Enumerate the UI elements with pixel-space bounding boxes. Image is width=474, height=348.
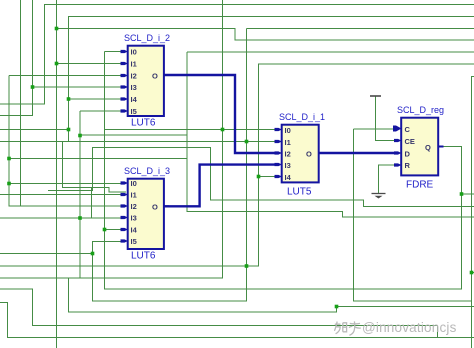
svg-text:SCL_D_reg: SCL_D_reg <box>397 105 444 115</box>
blue net LUT6_3 output to LUT5 I3 <box>164 165 277 207</box>
blue net LUT5 output to FDRE D <box>319 152 397 154</box>
svg-text:I1: I1 <box>131 60 137 69</box>
junction x471 y272 <box>470 271 474 275</box>
svg-text:LUT5: LUT5 <box>287 187 312 198</box>
wire clock vertical <box>354 77 474 302</box>
wire vertical x56 <box>56 0 58 348</box>
wire 253 branch <box>0 253 93 255</box>
wire vertical x9 chain <box>9 76 126 207</box>
svg-text:I4: I4 <box>131 95 138 104</box>
blue net LUT6_2 output to LUT5 I2 <box>164 75 277 153</box>
svg-text:LUT6: LUT6 <box>131 118 156 129</box>
svg-text:I3: I3 <box>285 161 291 170</box>
junction x258 y176 <box>257 175 261 179</box>
svg-text:I0: I0 <box>131 179 137 188</box>
svg-text:R: R <box>405 161 411 170</box>
svg-text:FDRE: FDRE <box>406 180 434 191</box>
svg-text:O: O <box>306 150 312 159</box>
junction x246 y141 <box>245 140 249 144</box>
svg-text:I4: I4 <box>131 226 138 235</box>
svg-text:SCL_D_i_3: SCL_D_i_3 <box>124 166 170 176</box>
svg-text:I2: I2 <box>131 72 137 81</box>
svg-text:I4: I4 <box>285 173 292 182</box>
ground symbol <box>372 194 386 199</box>
wire 158 line <box>9 157 187 159</box>
svg-text:I5: I5 <box>131 107 137 116</box>
wire I0 LUT6_3 feed <box>9 183 126 185</box>
wire branch 312 <box>69 278 474 312</box>
FDRE SCL_D_reg box <box>397 105 444 191</box>
junction x461 y194 <box>460 192 464 196</box>
LUT5 pins <box>275 128 282 178</box>
wire Q branch stub 194 <box>462 193 474 195</box>
wire vertical x80 <box>79 111 81 278</box>
LUT6 SCL_D_i_3 pins <box>121 181 128 242</box>
wire I0 LUT5 left seg <box>0 129 69 131</box>
junction x104 y229 <box>103 228 107 232</box>
wire vertical x20 <box>20 0 22 206</box>
wire I5 LUT6_2 feed <box>80 110 126 112</box>
wire vertical x32 <box>0 0 33 116</box>
power supply bar (CE tie-high) <box>370 95 381 97</box>
svg-text:C: C <box>405 125 411 134</box>
svg-text:I0: I0 <box>285 126 291 135</box>
LUT6 SCL_D_i_2 box <box>124 33 170 129</box>
LUT6_3 O stub <box>164 205 170 207</box>
wire right dot stub <box>472 272 474 274</box>
LUT6_2 O stub <box>164 74 170 76</box>
junction x9 y158 <box>7 157 11 161</box>
svg-text:I0: I0 <box>131 48 137 57</box>
svg-text:CE: CE <box>405 137 415 146</box>
wire net4 right 28 <box>247 28 474 30</box>
svg-text:O: O <box>152 203 158 212</box>
wire I0 LUT6_2 feed <box>105 51 127 53</box>
wire net2 second corner <box>69 17 474 142</box>
wire net6 64 line <box>0 64 474 266</box>
svg-text:I1: I1 <box>131 191 137 200</box>
wire bottom 337 <box>0 303 474 338</box>
svg-text:I5: I5 <box>131 237 137 246</box>
wire I1 LUT5 feed <box>0 141 276 143</box>
junction x80 y218 <box>78 216 82 220</box>
wire net Q feedback vertical <box>105 52 462 290</box>
junction x336 y306 <box>335 305 339 309</box>
wire CE feed <box>376 96 395 141</box>
wire I4 LUT6_3 feed <box>105 229 127 231</box>
svg-text:I3: I3 <box>131 83 137 92</box>
wire jog 187 <box>63 142 127 193</box>
svg-text:SCL_D_i_2: SCL_D_i_2 <box>124 33 170 43</box>
wire net 147 chain <box>48 148 474 207</box>
svg-text:I1: I1 <box>285 138 291 147</box>
wire vertical I1-I0 LUT5 feeder <box>93 29 247 302</box>
junction I4 feed x68 y99 <box>67 97 71 101</box>
junction at net3 x56 y28 <box>55 27 59 31</box>
svg-text:D: D <box>405 150 411 159</box>
wire C pin feed <box>354 128 396 130</box>
junction x92 y253 <box>91 252 95 256</box>
wire I1 LUT6_3 feed <box>0 194 126 196</box>
wire I3 LUT6_2 feed <box>33 86 127 88</box>
LUT6 SCL_D_i_3 box <box>124 166 170 262</box>
junction x80 y135 <box>78 134 82 138</box>
wire long vertical x222 <box>0 0 223 278</box>
wire R feed <box>379 165 396 194</box>
junction x68 y129 <box>67 128 71 132</box>
svg-text:LUT6: LUT6 <box>131 251 156 262</box>
wire net3 stepped <box>57 29 474 41</box>
junction x9 y183 <box>7 182 11 186</box>
wire I1 LUT6_2 feed <box>57 63 127 65</box>
wire net5 52 line <box>80 52 474 135</box>
wire I4 LUT6_2 feed <box>69 98 127 100</box>
FDRE Q stub <box>438 146 443 148</box>
wire net1 top-left corner <box>0 5 474 105</box>
junction I1 feed x56 y63 <box>55 62 59 66</box>
junction x222 y129 <box>221 128 225 132</box>
svg-text:O: O <box>152 72 158 81</box>
wire left 289 corner <box>0 289 438 338</box>
LUT5 SCL_D_i_1 box <box>279 112 325 198</box>
wire Q right vertical stub <box>471 77 473 348</box>
wire I0 LUT5 feed <box>105 129 277 131</box>
FDRE pins <box>393 126 402 167</box>
wire I2 LUT6_2 feed <box>9 75 126 77</box>
svg-text:I2: I2 <box>285 150 291 159</box>
wire clock chain <box>187 52 474 217</box>
wire I3 LUT6_3 feed <box>0 217 126 219</box>
wire I4 LUT5 feed <box>259 176 277 178</box>
svg-text:Q: Q <box>425 143 431 152</box>
svg-text:I2: I2 <box>131 202 137 211</box>
LUT6 SCL_D_i_2 pins <box>121 50 128 113</box>
junction I3 feed x32 y87 <box>31 85 35 89</box>
watermark <box>333 320 335 322</box>
wire short vertical x91 <box>91 188 93 219</box>
junction x246 y266 <box>245 264 249 268</box>
svg-text:I3: I3 <box>131 214 137 223</box>
svg-text:SCL_D_i_1: SCL_D_i_1 <box>279 112 325 122</box>
